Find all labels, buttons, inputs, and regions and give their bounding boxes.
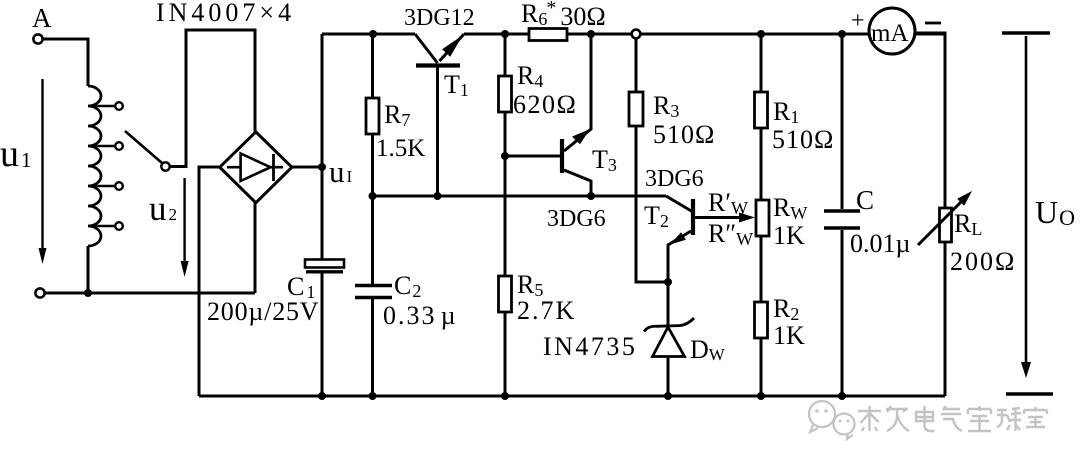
transistor T3 base bar	[560, 139, 564, 173]
wire C2 bottom	[371, 299, 374, 396]
RL arrow	[918, 201, 962, 245]
tap circle 3	[115, 182, 123, 190]
svg-text:C: C	[856, 185, 874, 215]
bridge diode line	[227, 166, 283, 169]
svg-text:uI: uI	[329, 154, 353, 189]
transistor T2 collector diagonal	[666, 196, 693, 212]
transistor T2 base wire to Rw wiper	[695, 216, 746, 219]
junction T3 base	[501, 152, 509, 160]
resistor R3	[629, 92, 643, 126]
svg-text:A: A	[32, 3, 52, 33]
bottom rail	[199, 395, 945, 398]
resistor R2	[755, 302, 768, 338]
junction R7 top	[369, 30, 377, 38]
wire R1 column top	[760, 34, 763, 92]
junction C1 bottom	[318, 392, 326, 400]
svg-text:2.7K: 2.7K	[517, 296, 576, 325]
wire R4 column	[504, 34, 507, 76]
transistor T1 base bar	[416, 63, 460, 67]
svg-text:3DG6: 3DG6	[547, 206, 606, 232]
tap stub 3	[90, 185, 115, 187]
svg-text:RW: RW	[773, 193, 807, 223]
ammeter mA	[869, 8, 915, 54]
open node circle	[632, 30, 641, 39]
Uo arrow line	[1025, 36, 1028, 370]
watermark icon	[809, 401, 855, 439]
svg-text:3DG12: 3DG12	[404, 5, 475, 31]
terminal bottom-left	[35, 288, 44, 297]
resistor R5	[499, 276, 512, 312]
top rail right segment	[464, 33, 945, 36]
wire T3 base	[505, 155, 560, 158]
wire C1 to bottom rail	[321, 273, 324, 396]
capacitor C1	[305, 260, 344, 268]
svg-text:R4: R4	[517, 61, 543, 91]
switch circle	[161, 162, 169, 170]
transistor T2 emitter	[668, 231, 691, 282]
wire A to transformer top	[43, 39, 88, 86]
svg-text:u2: u2	[149, 189, 177, 228]
junction R5 bottom	[501, 392, 509, 400]
svg-text:R3: R3	[653, 91, 679, 121]
wire zener column	[667, 282, 670, 396]
svg-text:R7: R7	[384, 100, 410, 130]
wire meter to RL column	[915, 33, 945, 208]
junction C2 bottom	[369, 392, 377, 400]
wire switch to bridge top	[170, 30, 255, 167]
svg-text:620Ω: 620Ω	[513, 90, 577, 119]
wire R1 to Rw	[760, 128, 763, 200]
junction C top	[838, 30, 846, 38]
wire R3 column	[635, 38, 638, 92]
junction zener bottom	[664, 392, 672, 400]
top rail left segment	[322, 33, 415, 36]
svg-text:200µ/25V: 200µ/25V	[207, 297, 319, 326]
Uo bottom bar	[1006, 392, 1053, 395]
wire bottom-left to bridge bottom	[45, 292, 255, 295]
wire C column bottom	[841, 230, 844, 396]
svg-text:R″W: R″W	[708, 219, 753, 249]
svg-text:DW: DW	[690, 335, 726, 364]
svg-text:u1: u1	[0, 133, 32, 175]
tap circle 1	[115, 102, 123, 110]
resistor R1	[755, 92, 768, 128]
wire bridge DC minus down	[199, 167, 220, 396]
svg-text:T1: T1	[444, 70, 469, 100]
tap stub 1	[90, 105, 115, 107]
u1 arrow	[41, 79, 43, 256]
tap stub 2	[90, 145, 115, 147]
wire bridge to uI node	[292, 166, 322, 169]
wire C column top	[841, 34, 844, 209]
node uI	[318, 163, 326, 171]
svg-text:+: +	[851, 8, 865, 34]
svg-text:UO: UO	[1035, 194, 1075, 230]
junction T3 collector	[587, 192, 595, 200]
svg-text:IN4735: IN4735	[543, 332, 637, 361]
bridge diode triangle	[241, 154, 271, 182]
svg-text:0.01µ: 0.01µ	[850, 229, 911, 258]
transformer primary winding	[88, 86, 101, 246]
wire Rw to R2	[760, 236, 763, 302]
transistor T1 base wire	[436, 67, 439, 196]
junction zener top	[664, 278, 672, 286]
transistor T1 collector	[415, 34, 438, 63]
junction R2 bottom	[757, 392, 765, 400]
junction R1 top	[757, 30, 765, 38]
svg-text:T3: T3	[592, 145, 617, 175]
resistor R6	[529, 29, 567, 41]
resistor R4	[499, 76, 512, 112]
Uo top bar	[1002, 31, 1050, 34]
capacitor C2	[355, 284, 392, 287]
wire R3 to corner	[636, 126, 668, 282]
watermark text	[858, 406, 1047, 431]
base rail (T1 base line)	[373, 195, 667, 198]
junction transformer bottom	[84, 289, 92, 297]
svg-text:IN4007×4: IN4007×4	[156, 0, 295, 27]
wire uI column up and to C1	[321, 34, 324, 260]
svg-text:3DG6: 3DG6	[645, 166, 704, 192]
svg-text:R′W: R′W	[708, 188, 748, 218]
u2 arrow	[183, 178, 185, 269]
wire R7 column top	[371, 34, 374, 98]
wire R5 bottom	[504, 312, 507, 396]
wire R7 to rail	[371, 134, 374, 196]
svg-text:200Ω: 200Ω	[950, 247, 1016, 276]
svg-text:510Ω: 510Ω	[653, 120, 715, 149]
tap stub 4	[90, 225, 115, 227]
transistor T3 collector down	[564, 170, 591, 196]
wire C2 top	[371, 196, 374, 284]
resistor R7	[366, 98, 379, 134]
bridge diode cathode bar	[272, 154, 275, 181]
junction T3 emitter top	[587, 30, 595, 38]
transistor T2 base bar	[691, 199, 695, 235]
label minus	[925, 22, 941, 25]
svg-text:1K: 1K	[773, 221, 805, 250]
svg-text:R6*30Ω: R6*30Ω	[521, 0, 606, 31]
svg-text:0.33 µ: 0.33 µ	[383, 301, 458, 330]
svg-text:RL: RL	[954, 209, 982, 239]
svg-text:1K: 1K	[773, 321, 805, 350]
svg-text:510Ω: 510Ω	[772, 125, 834, 154]
wire R4 to R5	[504, 112, 507, 276]
load RL	[940, 208, 952, 242]
zener diode Dw triangle	[653, 327, 685, 357]
svg-text:R2: R2	[773, 294, 799, 324]
junction R4 top	[501, 30, 509, 38]
capacitor C	[824, 209, 860, 213]
tap circle 4	[115, 222, 123, 230]
bridge rectifier diamond	[220, 132, 292, 203]
junction T1 base	[434, 192, 442, 200]
zener diode Dw bar	[644, 318, 694, 332]
wire winding bottom	[87, 246, 90, 293]
svg-text:T2: T2	[644, 201, 669, 231]
junction C bottom	[838, 392, 846, 400]
wire RL bottom	[944, 242, 947, 396]
transistor T1 emitter	[440, 34, 465, 61]
wire R2 bottom	[760, 338, 763, 396]
transistor T3 emitter up	[564, 34, 591, 151]
switch arm	[125, 131, 162, 163]
wire bridge bottom vertical	[254, 202, 257, 293]
svg-text:mA: mA	[871, 20, 909, 47]
svg-text:R1: R1	[773, 97, 799, 127]
terminal A	[33, 34, 42, 43]
tap circle 2	[115, 142, 123, 150]
svg-text:1.5K: 1.5K	[376, 135, 425, 162]
svg-text:C2: C2	[394, 271, 421, 301]
potentiometer Rw	[756, 200, 769, 236]
junction R7 bottom	[369, 192, 377, 200]
